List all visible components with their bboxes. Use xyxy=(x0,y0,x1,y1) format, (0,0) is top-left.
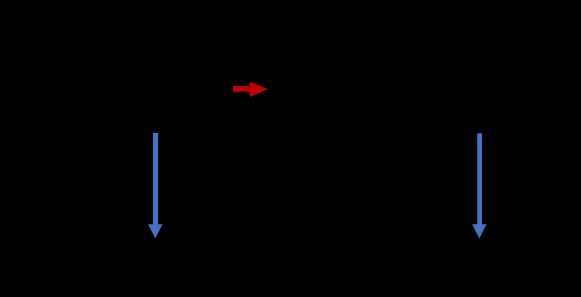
battery V1 xyxy=(45,89,75,270)
current arrow I2 (blue, right branch, pointing down) xyxy=(472,133,486,238)
current arrow I (red, top wire, pointing right) xyxy=(233,82,268,97)
wire bottom xyxy=(60,269,520,271)
wire top (node A to node B) xyxy=(60,88,520,90)
current arrow I1 (blue, left branch, pointing down) xyxy=(148,133,162,239)
resistor R2 xyxy=(508,89,532,270)
resistor R1 xyxy=(188,89,212,270)
